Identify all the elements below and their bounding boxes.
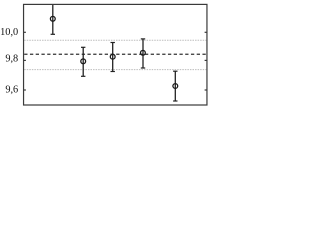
svg-text:9,6: 9,6 (5, 84, 18, 95)
svg-text:10,0: 10,0 (0, 27, 18, 38)
svg-text:9,8: 9,8 (5, 54, 18, 65)
